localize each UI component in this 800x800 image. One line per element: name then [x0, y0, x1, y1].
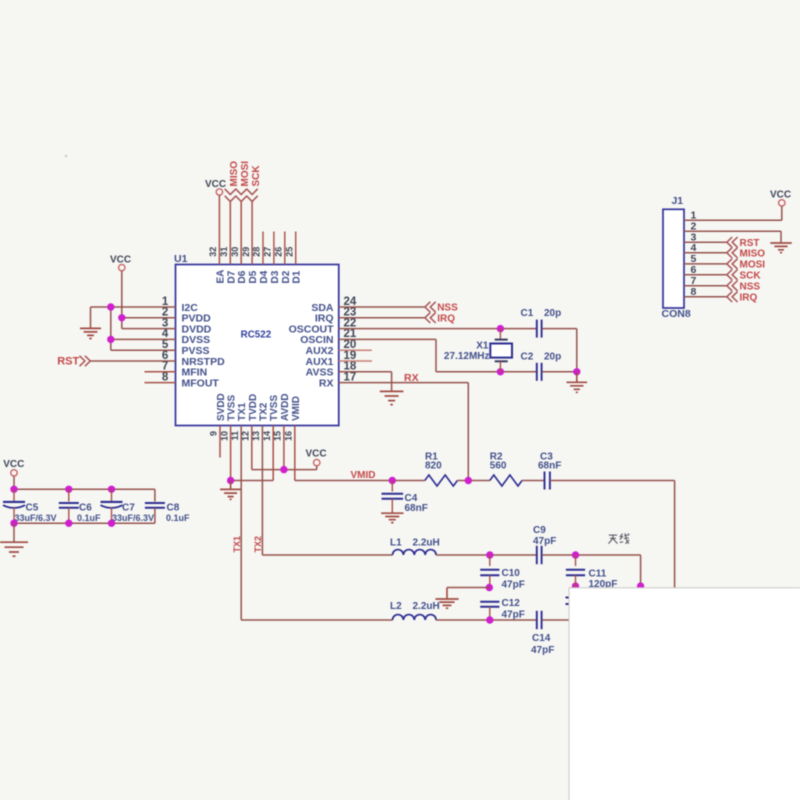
ground (right of C2)	[576, 372, 578, 382]
wire top pin stub	[273, 232, 275, 265]
svg-text:C12: C12	[502, 598, 521, 609]
svg-text:MISO: MISO	[740, 248, 766, 259]
port SCK chevron (J1)	[727, 270, 738, 280]
capacitor C10	[489, 555, 491, 566]
svg-text:0.1uF: 0.1uF	[166, 513, 190, 523]
svg-text:47pF: 47pF	[531, 645, 554, 656]
svg-text:VCC: VCC	[770, 190, 791, 201]
svg-text:29: 29	[241, 247, 251, 257]
wire SCK to U1	[251, 202, 253, 265]
wire pin8 MFOUT stub	[145, 382, 176, 384]
svg-text:IRQ: IRQ	[437, 313, 455, 324]
svg-text:C14: C14	[532, 633, 551, 644]
wire top pin stub	[262, 232, 264, 265]
wire OSCIN to C2	[436, 371, 536, 373]
wire pin15 AVDD down	[283, 426, 285, 470]
svg-text:20p: 20p	[544, 308, 561, 319]
ground (C5 block)	[0, 542, 28, 556]
svg-text:MOSI: MOSI	[740, 260, 766, 271]
ground (C10/C12)	[446, 588, 448, 599]
svg-text:20p: 20p	[544, 352, 561, 363]
svg-text:NSS: NSS	[740, 281, 761, 292]
node junction crystal top	[497, 325, 504, 332]
wire pin3 DVDD	[122, 328, 176, 330]
ground (AVSS)	[380, 391, 404, 404]
wire TX1 row to L2	[241, 619, 392, 621]
wire pin24 SDA	[339, 306, 425, 308]
ground (left of U1)	[80, 328, 101, 338]
capacitor C4	[391, 481, 393, 492]
wire pin1 I2C	[91, 306, 176, 308]
ground (J1)	[770, 243, 791, 253]
svg-text:VMID: VMID	[351, 470, 376, 481]
svg-text:26: 26	[274, 247, 284, 257]
svg-text:31: 31	[219, 247, 229, 257]
svg-text:560: 560	[490, 460, 507, 471]
wire pin18 AVSS	[339, 371, 392, 373]
svg-text:2.2uH: 2.2uH	[413, 601, 440, 612]
wire R2-C3	[522, 480, 544, 482]
node junction AVDD	[280, 466, 287, 473]
node junction pin1	[107, 303, 114, 310]
node junction crystal bottom	[497, 368, 504, 375]
wire J1 to IRQ	[684, 296, 727, 298]
svg-text:32: 32	[208, 247, 218, 257]
wire L1 to C9	[436, 554, 536, 556]
svg-text:15: 15	[273, 431, 283, 441]
node junction C10 top	[486, 551, 493, 558]
svg-text:C2: C2	[521, 352, 534, 363]
svg-text:17: 17	[344, 371, 357, 383]
svg-text:VMID: VMID	[291, 396, 302, 421]
wire to ground (C5 block)	[13, 523, 15, 542]
svg-text:TVSS: TVSS	[227, 395, 238, 421]
node junction C4	[389, 477, 396, 484]
capacitor C5 (polarized)	[13, 489, 15, 501]
wire pin20 AUX2 stub	[339, 349, 372, 351]
wire J1 to NSS	[684, 285, 727, 287]
svg-text:D3: D3	[270, 270, 281, 283]
svg-text:13: 13	[251, 431, 261, 441]
svg-text:C6: C6	[79, 503, 92, 514]
resistor R2	[490, 475, 522, 486]
node junction RX-R1-R2	[465, 477, 472, 484]
wire pin11 TX1 down	[240, 426, 242, 621]
svg-text:D6: D6	[237, 270, 248, 283]
svg-text:8: 8	[162, 371, 169, 383]
svg-text:RC522: RC522	[241, 330, 272, 341]
svg-text:9: 9	[209, 431, 219, 436]
wire pin16 VMID down	[294, 426, 296, 481]
wire top pin stub	[284, 232, 286, 265]
wire TX2 row to L1	[262, 554, 392, 556]
wire TVSS bus	[231, 480, 274, 482]
svg-text:MFOUT: MFOUT	[182, 377, 220, 389]
capacitor C13 (partially hidden)	[566, 597, 586, 599]
svg-text:CON8: CON8	[662, 308, 691, 320]
wire to ground (pin1)	[90, 307, 92, 328]
port NSS chevron (J1)	[727, 281, 738, 291]
wire pin12 TVDD down	[251, 426, 253, 470]
speck artifact	[65, 155, 67, 157]
svg-text:J1: J1	[671, 195, 683, 207]
port IRQ chevron (J1)	[727, 292, 738, 302]
wire pin10 TVSS down	[230, 426, 232, 481]
node junction C11 at box edge	[572, 582, 579, 589]
wire right vertical C1-C2	[576, 329, 578, 372]
svg-text:D1: D1	[292, 270, 303, 283]
wire C14 right (cut by box)	[542, 619, 569, 621]
svg-text:SVDD: SVDD	[216, 393, 227, 421]
wire C9 right	[542, 554, 641, 556]
capacitor C7 (polarized)	[111, 489, 113, 501]
port SCK chevron	[247, 189, 258, 202]
svg-text:U1: U1	[174, 253, 188, 265]
svg-text:EA: EA	[215, 270, 226, 284]
resistor R1	[425, 475, 458, 486]
port RST chevron	[80, 356, 91, 366]
svg-text:RST: RST	[57, 356, 79, 368]
svg-text:25: 25	[284, 247, 294, 257]
capacitor C6	[68, 489, 70, 501]
svg-text:TVSS: TVSS	[269, 395, 280, 421]
svg-text:RST: RST	[740, 238, 760, 249]
node junction VCC-pin2	[118, 314, 125, 321]
wire VMID row	[295, 480, 425, 482]
svg-text:TX1: TX1	[237, 402, 248, 421]
node junctions top bus	[10, 486, 17, 493]
capacitor C14	[536, 611, 538, 629]
wire RX down to R1/R2 node	[467, 383, 469, 481]
svg-text:68nF: 68nF	[405, 503, 428, 514]
svg-text:VCC: VCC	[305, 449, 326, 460]
svg-text:TX2: TX2	[258, 402, 269, 421]
svg-text:VCC: VCC	[110, 255, 131, 266]
wire pin5 PVSS	[111, 349, 176, 351]
wire C1 to corner	[542, 328, 577, 330]
wire MISO to U1	[229, 202, 231, 265]
wire pin17 RX	[339, 382, 469, 384]
wire J1 to SCK	[684, 274, 727, 276]
svg-text:14: 14	[262, 431, 272, 441]
svg-text:SCK: SCK	[740, 270, 762, 281]
svg-text:68nF: 68nF	[538, 460, 561, 471]
node junction at white box edge	[637, 582, 644, 589]
inductor L2	[393, 615, 437, 620]
capacitor C12	[480, 601, 499, 603]
svg-text:C1: C1	[521, 308, 534, 319]
ground (TVSS)	[230, 481, 232, 490]
node junction C11 top	[572, 551, 579, 558]
svg-text:47pF: 47pF	[533, 536, 556, 547]
svg-text:TX2: TX2	[253, 536, 263, 553]
wire C3 net down to antenna area	[674, 481, 676, 589]
port MISO chevron (J1)	[727, 248, 738, 258]
wire pin2 PVDD	[122, 317, 176, 319]
wire pin9 SVDD stub	[219, 426, 221, 458]
port MOSI chevron (J1)	[727, 259, 738, 269]
svg-text:27.12MHz: 27.12MHz	[444, 351, 490, 362]
svg-text:VCC: VCC	[205, 179, 226, 190]
port MOSI chevron	[236, 189, 247, 202]
svg-text:TVDD: TVDD	[248, 394, 259, 421]
port IRQ chevron	[425, 313, 436, 323]
svg-text:NSS: NSS	[437, 303, 458, 314]
svg-text:27: 27	[263, 247, 273, 257]
node junction pin4	[107, 336, 114, 343]
capacitor C3	[544, 472, 546, 490]
node junction C10-C12 ground tap	[486, 584, 493, 591]
wire pin6 NRSTPD	[90, 360, 175, 362]
wire C3 right	[550, 480, 675, 482]
port NSS chevron	[425, 302, 436, 312]
node junction C12 bottom	[486, 616, 493, 623]
svg-text:2.2uH: 2.2uH	[413, 538, 440, 549]
svg-text:10: 10	[219, 431, 229, 441]
capacitor C9	[536, 546, 538, 564]
antenna label (Chinese)	[608, 533, 629, 543]
svg-text:SCK: SCK	[251, 165, 262, 187]
wire MOSI to U1	[240, 202, 242, 265]
wire bottom bus C5-C8	[14, 522, 155, 524]
wire VCC to pin32 EA	[218, 195, 220, 264]
wire C8 top corner	[154, 489, 156, 501]
svg-text:12: 12	[241, 431, 251, 441]
wire J1 to RST	[684, 241, 727, 243]
svg-text:L2: L2	[390, 601, 402, 612]
svg-text:C9: C9	[533, 525, 546, 536]
wire bus pins 1,4,5	[110, 307, 112, 350]
svg-text:AVDD: AVDD	[280, 393, 291, 421]
svg-text:D5: D5	[248, 270, 259, 283]
wire R1-R2	[457, 480, 489, 482]
wire top pin stub	[295, 232, 297, 265]
port RST chevron (J1)	[727, 237, 738, 247]
node junction C2 right	[573, 368, 580, 375]
svg-text:C8: C8	[167, 503, 180, 514]
wire L2 to C14	[436, 619, 536, 621]
wire pin23 IRQ	[339, 317, 425, 319]
wire pin21 OSCIN	[339, 338, 436, 340]
node junction TVSS-ground	[227, 477, 234, 484]
svg-text:47pF: 47pF	[502, 609, 525, 620]
capacitor C8	[145, 502, 165, 504]
svg-text:TX1: TX1	[232, 536, 242, 553]
wire pin7 MFIN stub	[145, 371, 176, 373]
crystal X1	[499, 329, 501, 340]
wire C2 to ground node	[542, 371, 577, 373]
svg-text:RX: RX	[319, 377, 334, 389]
wire pin4 DVSS	[111, 338, 176, 340]
svg-text:MOSI: MOSI	[240, 161, 251, 187]
svg-text:33uF/6.3V: 33uF/6.3V	[112, 513, 154, 523]
wire TVDD/AVDD bus	[252, 469, 317, 471]
svg-text:C7: C7	[122, 503, 135, 514]
svg-text:33uF/6.3V: 33uF/6.3V	[15, 513, 57, 523]
svg-text:11: 11	[230, 431, 240, 441]
node junctions bottom bus	[10, 520, 17, 527]
svg-text:C10: C10	[502, 568, 521, 579]
wire pin14 TVSS down	[272, 426, 274, 481]
wire top bus C5-C8	[14, 488, 155, 490]
svg-text:D4: D4	[259, 270, 270, 283]
svg-text:IRQ: IRQ	[740, 292, 758, 303]
svg-text:MISO: MISO	[229, 161, 240, 187]
svg-text:820: 820	[425, 460, 442, 471]
svg-text:C5: C5	[26, 503, 39, 514]
wire J1 pin2 to ground	[684, 230, 781, 232]
svg-text:VCC: VCC	[3, 459, 24, 470]
wire pin22 OSCOUT to C1	[339, 328, 536, 330]
wire pin19 AUX1 stub	[339, 360, 372, 362]
wire OSCIN down	[435, 339, 437, 371]
wire VCC to pins 2,3	[121, 271, 123, 329]
svg-text:28: 28	[252, 247, 262, 257]
svg-text:0.1uF: 0.1uF	[77, 513, 101, 523]
capacitor C1	[536, 320, 538, 338]
white cover box (bottom right)	[569, 588, 800, 800]
svg-text:L1: L1	[390, 538, 402, 549]
wire J1 pin1 to VCC	[684, 219, 782, 221]
port MISO chevron	[225, 189, 236, 202]
svg-text:16: 16	[284, 431, 294, 441]
svg-text:D7: D7	[226, 270, 237, 283]
svg-text:47pF: 47pF	[502, 579, 525, 590]
wire J1 to MISO	[684, 252, 727, 254]
capacitor C11	[575, 555, 577, 566]
wire antenna row corner down	[640, 555, 642, 588]
wire pin13 TX2 down	[261, 426, 263, 556]
svg-text:D2: D2	[281, 270, 292, 283]
wire ground tap	[447, 587, 489, 589]
capacitor C2	[536, 363, 538, 381]
svg-text:30: 30	[230, 247, 240, 257]
op-amp U1	[176, 265, 339, 426]
wire J1 to MOSI	[684, 263, 727, 265]
svg-text:RX: RX	[404, 372, 419, 384]
ground (C4)	[381, 513, 403, 522]
inductor L1	[393, 550, 437, 555]
